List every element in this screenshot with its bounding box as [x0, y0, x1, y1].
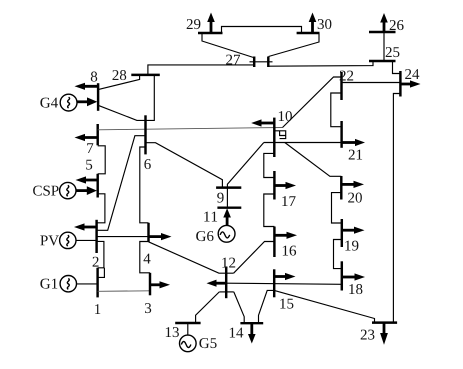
bus 30 bar — [297, 32, 320, 34]
generator G6 — [218, 225, 235, 242]
label 27 — [226, 55, 240, 65]
bus 16 bar — [273, 227, 275, 258]
load arrow bus 19 — [342, 229, 356, 232]
label PV — [40, 236, 59, 246]
label G4 — [40, 98, 58, 108]
wire 27-25 — [268, 61, 373, 66]
wire 27-29 — [202, 33, 254, 58]
transformer link 5-7 — [98, 146, 106, 174]
bus 26 bar — [369, 31, 396, 33]
label 28 — [113, 70, 127, 80]
label 18 — [349, 284, 362, 294]
generator G4 — [60, 94, 77, 111]
transformer link 2-5 — [96, 194, 105, 223]
label 26 — [390, 20, 404, 30]
wire 2-4 — [97, 236, 149, 238]
bus 25 bar — [369, 60, 396, 62]
arrow G4 to bus 8 — [77, 100, 88, 103]
label 20 — [348, 193, 362, 203]
load arrow bus 20 — [341, 183, 355, 186]
generator G1 — [60, 276, 76, 292]
bus 5 bar — [96, 174, 98, 198]
label 21 — [349, 150, 362, 160]
wire PV to bus 2 — [76, 239, 97, 241]
bus 3 bar — [149, 273, 151, 296]
label CSP — [33, 186, 58, 196]
transformer link 19-20 — [332, 193, 342, 223]
wire 22-24 — [342, 82, 401, 84]
load arrow bus 2 — [81, 226, 97, 229]
bus 4 bar — [147, 223, 149, 242]
wire 25-26 — [383, 32, 385, 61]
bus 14 bar — [240, 322, 263, 324]
load arrow bus 14 — [250, 323, 253, 334]
bus 15 bar — [273, 269, 275, 297]
wire 29-30 — [222, 27, 302, 34]
bus 20 bar — [340, 176, 342, 200]
wire 12-13 — [196, 292, 220, 323]
load arrow bus 30 — [311, 21, 314, 33]
wire G1 to bus 1 — [77, 283, 98, 285]
load arrow bus 18 — [342, 276, 356, 279]
wire 14-15 — [259, 290, 275, 323]
wire 27-30 — [269, 33, 320, 57]
transformer link 16-17 — [264, 194, 275, 227]
label 16 — [283, 246, 296, 256]
transformer link 1-2 — [97, 241, 104, 267]
label 25 — [386, 47, 400, 57]
label 9 — [217, 193, 223, 203]
load arrow bus 10 — [259, 122, 275, 125]
wire 6-28 — [146, 75, 155, 121]
transformer link at bus 10 — [274, 131, 285, 139]
bus 10 bar — [273, 118, 275, 157]
load arrow bus 29 — [210, 21, 213, 33]
label 8 — [91, 72, 97, 82]
label 1 — [95, 304, 100, 314]
bus 6 bar — [144, 115, 146, 154]
bus 28 bar — [131, 74, 160, 76]
label 29 — [187, 19, 201, 29]
label 3 — [145, 303, 151, 313]
bus 2 bar — [95, 220, 97, 253]
bus 11 bar — [217, 206, 241, 208]
generator CSP — [60, 182, 76, 198]
label 13 — [166, 327, 179, 337]
load arrow bus 21 — [342, 141, 357, 144]
label 19 — [345, 241, 358, 251]
wire 15-23 — [274, 290, 374, 322]
label 30 — [318, 19, 332, 29]
label 10 — [279, 111, 292, 121]
load arrow bus 3 — [150, 283, 162, 286]
crossbar bus 12 lower — [219, 291, 234, 293]
bus 21 bar — [340, 121, 342, 148]
label G6 — [196, 231, 213, 241]
wire 1-3 — [98, 290, 150, 293]
label 22 — [340, 71, 354, 81]
generator PV — [60, 232, 76, 248]
bus 1 bar — [96, 268, 98, 298]
wire 8-28 — [98, 75, 140, 90]
label 6 — [144, 159, 150, 169]
label 5 — [86, 160, 92, 170]
label G1 — [40, 279, 57, 289]
bus 29 bar — [198, 32, 223, 34]
bus 17 bar — [273, 171, 275, 200]
wire 24-23 — [393, 94, 400, 323]
wire 9-10 — [227, 143, 263, 188]
label 11 — [204, 212, 217, 222]
arrow G6 to bus 11 — [226, 216, 229, 225]
wire 10-22 — [283, 77, 342, 128]
wire 21-22 — [331, 93, 342, 127]
wire 12-15-18 — [226, 283, 342, 284]
bus 19 bar — [341, 219, 343, 247]
bus 24 bar — [399, 71, 401, 97]
transformer link 18-19 — [334, 240, 342, 269]
wire 10-20 — [285, 143, 342, 177]
wire 2-6 — [97, 136, 146, 231]
load arrow bus 5 — [83, 179, 98, 182]
label 14 — [230, 328, 244, 338]
label G5 — [199, 338, 216, 348]
bus 8 bar — [97, 83, 99, 111]
wire 12-16 — [234, 242, 275, 274]
generator G5 — [180, 335, 197, 352]
label 12 — [222, 258, 235, 268]
wire 7-6-10 — [98, 128, 283, 130]
wire 4-6 — [140, 147, 149, 223]
bus 23 bar — [372, 321, 397, 323]
bus 7 bar — [96, 124, 98, 145]
label 15 — [280, 299, 293, 309]
load arrow bus 12 — [216, 282, 227, 285]
load arrow bus 15 — [274, 275, 287, 278]
label 17 — [282, 196, 295, 206]
wire 10-17 — [264, 153, 275, 177]
label 24 — [405, 69, 419, 79]
load arrow bus 23 — [383, 323, 386, 334]
bus 12 bar — [225, 267, 227, 299]
load arrow bus 16 — [274, 234, 289, 237]
bus 27 bar — [250, 61, 273, 63]
bus 18 bar — [341, 261, 343, 290]
label 4 — [144, 254, 151, 264]
wire 12-14 — [234, 292, 244, 323]
load arrow bus 7 — [82, 136, 98, 139]
load arrow bus 4 — [149, 235, 164, 238]
bus 9 bar — [216, 186, 241, 188]
label 7 — [87, 143, 93, 153]
load arrow bus 17 — [274, 184, 288, 187]
wire 6-9 — [146, 143, 223, 188]
wire 9-11 — [226, 188, 228, 208]
wire 25-24 — [393, 61, 401, 74]
transformer link 3-4 — [140, 242, 150, 273]
load arrow bus 26 — [383, 21, 386, 32]
arrow CSP to bus 5 — [76, 189, 88, 192]
label 23 — [361, 330, 375, 340]
load arrow bus 24 — [400, 83, 413, 86]
wire 10-21 — [264, 142, 342, 144]
bus 13 bar — [175, 322, 200, 324]
wire 28-27 — [148, 65, 254, 75]
wire 6-8 — [98, 105, 145, 120]
wire G5 to bus 13 — [187, 323, 189, 335]
load arrow bus 8 — [82, 85, 98, 88]
bus 22 bar — [340, 72, 342, 100]
wire 4-12 — [149, 242, 234, 273]
label 2 — [93, 257, 99, 267]
